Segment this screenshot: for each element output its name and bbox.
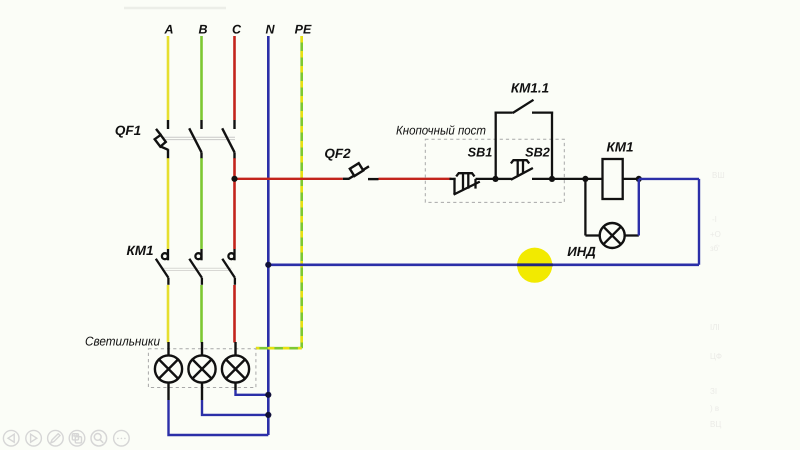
breaker QF1 pole 3 xyxy=(222,120,234,158)
wire phase C mid xyxy=(233,158,236,249)
push-button station dashed box xyxy=(425,139,564,202)
svg-text:ВШ: ВШ xyxy=(712,171,725,180)
lamp EL3 xyxy=(222,342,249,390)
wire PE horizontal to lamps box xyxy=(256,347,302,350)
svg-text:ІЛІ: ІЛІ xyxy=(710,323,720,332)
node coil right junction xyxy=(636,176,642,182)
coil KM1 xyxy=(603,159,623,199)
svg-text:QF1: QF1 xyxy=(115,123,141,138)
wire node to SB2 xyxy=(496,178,512,180)
wire blue right vertical xyxy=(698,179,700,265)
wire control red QF2 to SB1 xyxy=(379,178,452,180)
wire blue lamp right vertical xyxy=(638,179,640,236)
node lamp2 junction xyxy=(265,412,271,418)
wire SB1 to node xyxy=(476,178,496,180)
svg-text:SB2: SB2 xyxy=(525,146,550,160)
svg-text:SB1: SB1 xyxy=(468,146,493,160)
highlight yellow circle xyxy=(517,248,552,283)
wire blue lamp2 return xyxy=(202,400,268,415)
svg-text:ЗІ: ЗІ xyxy=(710,387,717,396)
player control more button xyxy=(114,430,130,446)
svg-text:C: C xyxy=(232,23,242,37)
svg-text:зб': зб' xyxy=(710,244,720,253)
wire phase C lower xyxy=(233,285,236,343)
player control film button xyxy=(69,430,85,446)
wire phase B top xyxy=(200,36,203,120)
wire SB2 node to coil xyxy=(552,178,603,180)
breaker QF1 pole 1 xyxy=(155,120,169,158)
node lamp branch junction xyxy=(582,176,588,182)
node SB1/KM1.1 left junction xyxy=(492,176,498,182)
svg-text:Светильники: Светильники xyxy=(85,333,160,348)
wire phase B mid xyxy=(200,158,203,249)
contactor KM1 pole 1 xyxy=(156,249,169,285)
node lamp3 junction xyxy=(265,392,271,398)
wire neutral N vertical xyxy=(267,36,270,435)
wire neutral horizontal xyxy=(268,263,699,266)
lamp EL1 xyxy=(155,342,182,400)
wire blue lamp3 return xyxy=(236,390,269,395)
node junction C to control xyxy=(231,176,237,182)
contactor KM1 pole 2 xyxy=(189,249,202,285)
svg-text:N: N xyxy=(265,23,275,37)
svg-text:ЦФ: ЦФ xyxy=(710,352,722,361)
breaker QF1 pole 2 xyxy=(189,120,201,158)
wire coil to blue node xyxy=(623,178,639,180)
svg-text:КМ1: КМ1 xyxy=(126,243,153,258)
lamps dashed box xyxy=(148,349,256,388)
lamp EL2 xyxy=(188,342,215,400)
svg-text:QF2: QF2 xyxy=(324,146,351,161)
svg-text:ИНД: ИНД xyxy=(567,244,596,259)
player control pencil button xyxy=(48,430,64,446)
svg-text:-I: -I xyxy=(712,215,717,224)
wire control red from C to QF2 xyxy=(235,178,343,180)
wire SB2 to node xyxy=(532,178,552,180)
wire phase A mid xyxy=(167,158,170,249)
svg-text:B: B xyxy=(198,23,207,37)
svg-text:Кнопочный пост: Кнопочный пост xyxy=(396,124,486,138)
player control zoom button xyxy=(91,430,107,446)
svg-text:ВЦ: ВЦ xyxy=(710,420,721,429)
svg-text:КМ1: КМ1 xyxy=(606,140,633,155)
wire phase A lower xyxy=(167,285,170,343)
faint top artifact line xyxy=(124,7,226,10)
lamp IND xyxy=(600,223,625,248)
node neutral junction xyxy=(265,262,271,268)
wire phase B lower xyxy=(200,285,203,343)
svg-text:+О: +О xyxy=(710,230,721,239)
player control back button xyxy=(3,430,19,446)
button SB2 (NO) xyxy=(511,160,533,180)
wire lamp branch bottom xyxy=(585,234,599,236)
breaker QF1 linkage xyxy=(161,137,236,139)
wire blue lamp1 return xyxy=(169,400,269,435)
wire lamp branch down xyxy=(584,179,586,236)
contactor KM1 pole 3 xyxy=(222,249,235,285)
contactor KM1 linkage xyxy=(162,268,232,270)
svg-text:) в: ) в xyxy=(710,404,719,413)
player control forward button xyxy=(26,430,42,446)
wire neutral over highlight xyxy=(517,263,553,266)
wire lamp right xyxy=(625,234,639,236)
button SB1 (NC) xyxy=(450,173,480,194)
wire blue coil to right xyxy=(639,178,699,180)
svg-text:A: A xyxy=(163,23,173,37)
faint right margin artifacts xyxy=(710,171,725,429)
svg-text:КМ1.1: КМ1.1 xyxy=(511,81,549,96)
node SB2/KM1.1 right junction xyxy=(549,176,555,182)
wire phase C top xyxy=(233,36,236,120)
wire PE vertical xyxy=(300,36,303,348)
wire phase A top xyxy=(167,36,170,120)
breaker QF2 xyxy=(343,163,379,179)
svg-text:PE: PE xyxy=(295,23,312,37)
contact KM1.1 (NO auxiliary) xyxy=(495,100,553,179)
